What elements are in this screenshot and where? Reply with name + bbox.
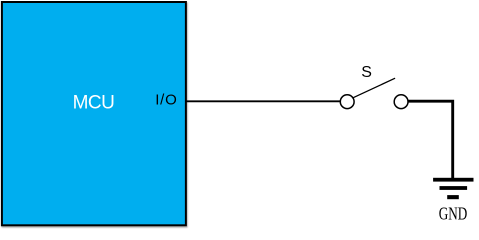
switch S right terminal xyxy=(394,95,408,109)
wire from MCU I/O pin to switch xyxy=(185,100,340,102)
svg-text:S: S xyxy=(361,64,372,81)
MCU label xyxy=(73,92,115,113)
MCU U1 block xyxy=(2,2,186,225)
switch S label xyxy=(361,64,372,81)
switch S left terminal xyxy=(340,95,354,109)
switch S lever xyxy=(353,78,395,98)
svg-text:MCU: MCU xyxy=(73,92,115,113)
ground symbol xyxy=(433,178,473,199)
svg-text:GND: GND xyxy=(439,205,468,224)
svg-text:I/O: I/O xyxy=(155,92,177,109)
wire from switch to ground xyxy=(408,101,453,178)
GND net label xyxy=(439,205,468,224)
pin I/O label xyxy=(155,92,177,109)
